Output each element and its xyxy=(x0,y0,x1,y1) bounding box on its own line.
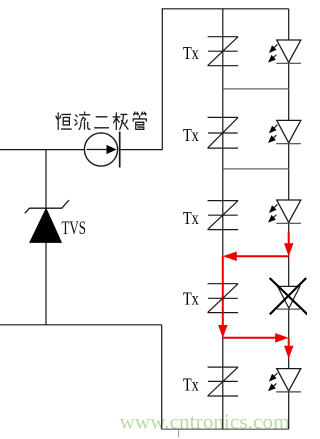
wire middle rail xyxy=(222,9,224,429)
CRD cathode bar xyxy=(119,132,121,168)
CRD arrow xyxy=(87,149,109,151)
svg-text:Tx: Tx xyxy=(183,375,199,395)
svg-text:Tx: Tx xyxy=(183,289,199,309)
wire rung 1 xyxy=(223,88,289,90)
failure cross X over LED D6 xyxy=(270,278,308,315)
red path: down right rail toward LED D7 xyxy=(288,338,290,348)
svg-text:TVS: TVS xyxy=(62,219,87,239)
label 恒流二极管 xyxy=(56,112,146,129)
constant current diode (CRD) circle xyxy=(84,133,117,166)
red current path: mid rail through cell 4 xyxy=(222,256,224,327)
svg-text:Tx: Tx xyxy=(183,43,199,63)
svg-text:www.cntronics.com: www.cntronics.com xyxy=(120,409,291,433)
wire top bus xyxy=(162,8,289,10)
suppressor Tx5 xyxy=(208,367,239,396)
suppressor Tx2 xyxy=(208,117,239,148)
LED D3 (cell 1) xyxy=(268,40,301,63)
red path: arrow down mid rail into rung 4 xyxy=(218,325,228,338)
stray tick below bottom bus xyxy=(178,430,180,437)
wire from diode to left rail xyxy=(120,149,162,151)
wire left rail lower segment xyxy=(161,325,163,429)
suppressor Tx4 xyxy=(208,284,239,313)
wire right rail xyxy=(288,9,290,429)
wire input left horizontal xyxy=(0,149,85,151)
red path: down right rail into rung 3 xyxy=(288,232,290,246)
wire TVS branch vertical xyxy=(45,150,47,325)
wire bottom bus xyxy=(162,428,289,430)
LED D6 failed (cell 4) xyxy=(277,286,300,309)
suppressor Tx1 xyxy=(208,37,239,66)
wire left rail upper segment xyxy=(161,9,163,150)
LED D4 (cell 2) xyxy=(268,120,301,143)
LED D7 (cell 5) xyxy=(268,369,301,392)
LED D5 (cell 3) xyxy=(268,200,301,223)
red path: rung 4 arrow to right rail xyxy=(223,337,278,339)
TVS diode D2 xyxy=(25,200,69,242)
svg-text:Tx: Tx xyxy=(183,208,199,228)
red path: rung 3 arrow to mid rail xyxy=(235,255,289,257)
wire rung 2 xyxy=(223,168,289,170)
svg-text:Tx: Tx xyxy=(183,125,199,145)
wire lower return horizontal xyxy=(0,324,162,326)
suppressor Tx3 xyxy=(208,201,239,230)
